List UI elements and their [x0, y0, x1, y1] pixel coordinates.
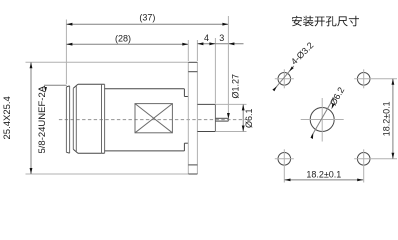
dim 18.2 bottom — [285, 169, 364, 181]
centerline — [59, 119, 246, 121]
svg-text:5/8-24UNEF-2A: 5/8-24UNEF-2A — [37, 85, 48, 153]
center hole — [301, 98, 344, 142]
hole TL — [275, 69, 294, 88]
thread label 5/8-24UNEF-2A — [37, 85, 67, 153]
svg-text:(28): (28) — [115, 33, 131, 43]
dim 18.2 right — [381, 79, 394, 159]
svg-text:18.2±0.1: 18.2±0.1 — [381, 101, 391, 136]
insulator bushing — [197, 104, 215, 131]
square mounting flange 25.4x25.4 — [188, 62, 197, 174]
svg-text:18.2±0.1: 18.2±0.1 — [306, 169, 341, 179]
dia 1.27 label — [227, 74, 241, 119]
dim (28) — [66, 33, 188, 45]
dim (37) — [66, 13, 228, 84]
coupling nut body (5/8-24UNEF-2A thread) — [73, 84, 104, 153]
title 安装开孔尺寸 — [292, 16, 359, 27]
knurl box with cross — [135, 104, 172, 133]
dim 25.4X25.4 — [2, 62, 188, 174]
dia 6.1 label — [215, 104, 254, 131]
connector body barrel — [105, 89, 185, 151]
center contact pin — [215, 118, 228, 121]
svg-text:3: 3 — [219, 33, 224, 43]
svg-text:25.4X25.4: 25.4X25.4 — [2, 96, 13, 139]
svg-text:Ø1.27: Ø1.27 — [231, 74, 241, 99]
dim 4 — [188, 33, 243, 103]
hole BR — [354, 149, 397, 182]
svg-text:4: 4 — [204, 33, 209, 43]
connector coupling nut front ring — [66, 86, 69, 153]
label 4-dia3.2 — [272, 40, 315, 91]
label dia6.2 — [311, 85, 347, 139]
dim 3 — [219, 16, 234, 115]
svg-text:(37): (37) — [139, 13, 155, 23]
hole BL — [275, 149, 294, 182]
svg-text:Ø6.1: Ø6.1 — [244, 108, 254, 128]
neck groove before flange — [184, 89, 188, 151]
hole TR — [354, 69, 397, 88]
